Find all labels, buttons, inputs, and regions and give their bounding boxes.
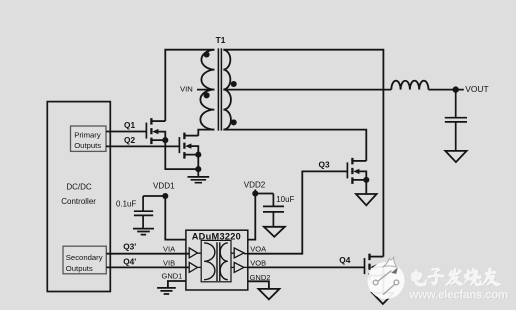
IC isolation barrier box — [201, 240, 231, 281]
svg-text:Q1: Q1 — [124, 120, 135, 130]
label ADuM3220 — [192, 231, 241, 241]
transformer T1 — [200, 35, 236, 130]
T1 polarity dot primary lower — [204, 92, 210, 98]
label Q3' — [123, 241, 136, 251]
output capacitor — [445, 90, 467, 151]
wire secondary top to Q4 drain — [223, 50, 383, 257]
IC core lines — [217, 242, 220, 281]
svg-text:Q4: Q4 — [339, 255, 350, 265]
label Q3 — [319, 159, 330, 169]
ground 0.1uF (IEC) — [133, 229, 154, 235]
ground GND2 (triangle) — [258, 289, 279, 300]
svg-text:GND1: GND1 — [162, 271, 183, 280]
wire VDD1 to IC — [143, 196, 186, 240]
T1 primary winding — [200, 50, 214, 130]
ground primary (IEC) — [188, 169, 210, 183]
wire Q2 drain to transformer primary bottom — [198, 130, 214, 136]
svg-text:Q2: Q2 — [124, 135, 135, 145]
svg-text:VIN: VIN — [180, 85, 193, 94]
pin label VOB — [250, 258, 266, 267]
transistor Q2 — [179, 133, 201, 159]
wire GND1 — [168, 281, 186, 287]
pin label VOA — [250, 245, 266, 254]
wire inductor to VOUT — [429, 89, 464, 91]
label VDD2 — [244, 181, 266, 190]
svg-text:VOB: VOB — [250, 258, 266, 267]
svg-text:Q3': Q3' — [123, 241, 136, 251]
label 0.1uF — [116, 199, 136, 208]
label 10uF — [276, 195, 294, 204]
wire VOB to Q4 gate — [248, 266, 365, 268]
svg-text:Secondary: Secondary — [66, 253, 103, 262]
svg-text:www.elecfans.com: www.elecfans.com — [409, 289, 508, 301]
node VOUT — [453, 86, 459, 92]
svg-text:Q3: Q3 — [319, 159, 330, 169]
svg-text:ADuM3220: ADuM3220 — [192, 231, 241, 241]
label Q1 — [124, 120, 135, 130]
svg-text:VIA: VIA — [163, 245, 175, 254]
buffer VOA — [231, 248, 248, 258]
wire VIA — [106, 253, 189, 255]
pin label VIB — [163, 258, 175, 267]
label T1 — [216, 35, 226, 45]
wire Q1 gate — [106, 131, 146, 133]
T1 polarity dot secondary upper — [231, 81, 237, 87]
pin label VIA — [163, 245, 175, 254]
svg-text:Q4': Q4' — [123, 257, 136, 267]
svg-text:VIB: VIB — [163, 258, 175, 267]
wire Q4 source to ground — [382, 276, 384, 293]
wire Q1 drain to transformer primary top — [165, 50, 214, 121]
IC coil right — [220, 243, 228, 280]
pin label GND1 — [162, 271, 183, 280]
svg-text:Outputs: Outputs — [66, 264, 93, 273]
buffer VOB — [231, 262, 248, 272]
junction ground rail — [195, 166, 201, 172]
capacitor 10uF — [263, 194, 284, 227]
inductor — [391, 81, 428, 90]
label Q2 — [124, 135, 135, 145]
ground 10uF (triangle) — [264, 227, 285, 237]
watermark logo — [368, 257, 405, 299]
wire VOA to Q3 gate — [248, 171, 348, 253]
watermark text 电子发烧友 — [412, 269, 501, 287]
T1 polarity dot secondary lower — [231, 119, 237, 125]
DC/DC controller box — [47, 102, 110, 292]
label VDD1 — [153, 182, 175, 191]
svg-text:0.1uF: 0.1uF — [116, 199, 136, 208]
label VOUT — [465, 84, 488, 94]
svg-text:VDD1: VDD1 — [153, 182, 175, 191]
IC ADuM3220 box — [186, 230, 248, 290]
wire Q2 source to ground junction — [197, 155, 199, 170]
transistor Q4 — [365, 254, 387, 280]
wire VIB — [106, 266, 189, 268]
svg-text:Outputs: Outputs — [74, 141, 101, 150]
capacitor 0.1uF — [134, 196, 153, 228]
ground VOUT (triangle) — [445, 151, 466, 162]
label VIN — [180, 85, 193, 94]
node VDD1 — [162, 193, 168, 199]
wire Q1 source to ground rail — [165, 141, 198, 169]
buffer VIB — [189, 262, 201, 272]
wire VIN tap — [197, 89, 214, 91]
label Q4 — [339, 255, 350, 265]
svg-text:T1: T1 — [216, 35, 226, 45]
primary outputs label — [74, 130, 101, 150]
wire secondary center tap to inductor — [223, 89, 391, 91]
buffer VIA — [189, 248, 201, 258]
ground GND1 (IEC) — [157, 288, 176, 294]
svg-text:DC/DC: DC/DC — [66, 183, 92, 192]
secondary outputs box — [63, 246, 106, 274]
ground Q4 (triangle) — [372, 293, 393, 304]
DC/DC controller label — [61, 183, 96, 206]
wire secondary bottom to Q3 drain — [223, 130, 366, 161]
secondary outputs label — [66, 253, 103, 273]
label Q4' — [123, 257, 136, 267]
wire GND2 — [248, 281, 269, 289]
wire Q2 gate — [106, 145, 179, 147]
T1 secondary winding — [223, 50, 231, 130]
transistor Q3 — [347, 158, 369, 184]
T1 polarity dot primary top — [204, 51, 210, 57]
svg-text:10uF: 10uF — [276, 195, 294, 204]
transistor Q1 — [146, 118, 168, 144]
wire VDD2 to IC — [248, 190, 274, 240]
wire Q3 source to ground — [365, 180, 367, 194]
primary outputs box — [71, 126, 107, 151]
T1 core — [218, 48, 221, 130]
svg-text:VOA: VOA — [250, 245, 266, 254]
pin label GND2 — [250, 273, 271, 282]
svg-text:VOUT: VOUT — [465, 84, 488, 94]
svg-text:VDD2: VDD2 — [244, 181, 266, 190]
ground Q3 (triangle) — [356, 194, 377, 205]
svg-text:Controller: Controller — [61, 197, 96, 206]
node VDD2 — [252, 190, 258, 196]
watermark url www.elecfans.com — [409, 289, 509, 302]
IC coil left — [204, 243, 215, 280]
svg-text:Primary: Primary — [74, 130, 101, 139]
